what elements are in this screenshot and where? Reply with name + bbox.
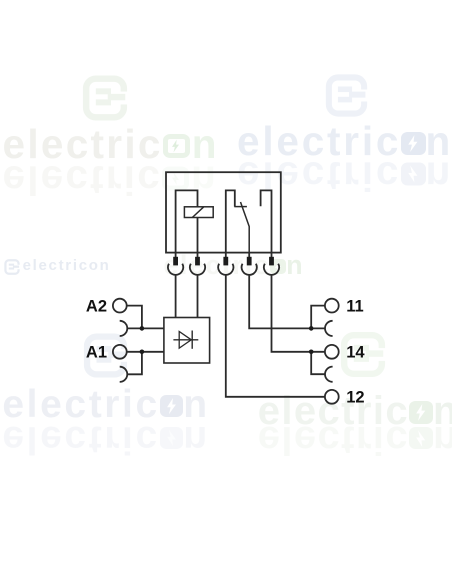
watermark logo top-right (pale blue) (321, 74, 372, 117)
terminal circle 12 (325, 390, 339, 404)
svg-text:A1: A1 (86, 344, 107, 362)
svg-text:12: 12 (346, 389, 364, 407)
suppressor block U1 (164, 318, 210, 364)
wire A1 into block (127, 351, 164, 353)
socket arc under A1 (120, 367, 128, 382)
node 11 junction dot (309, 326, 314, 331)
wire coil return (coil to pin 2) (197, 218, 199, 253)
watermark text bottom-left reflection (2, 420, 209, 459)
wire pin2 to suppressor block (197, 275, 199, 318)
svg-text:11: 11 (346, 298, 363, 316)
wire node to terminal 11 circle (311, 306, 325, 329)
terminal circle A2 (113, 299, 127, 313)
wire coil feed (pin 1 up and over) (176, 190, 198, 252)
wire A2 to node (127, 306, 142, 329)
wire NC fixed contact (pin 3 up, hook) (226, 190, 235, 252)
watermark logo top-left (pale green) (81, 75, 129, 121)
wire pin5 to node 14 (272, 275, 325, 352)
node 14 junction dot (309, 350, 314, 355)
watermark text top-right reflection (237, 156, 452, 197)
socket arc under 11 (325, 321, 333, 336)
pin 5 (271, 253, 273, 257)
node A1 junction dot (140, 350, 145, 355)
switch blade (common, pin 4) (241, 202, 250, 253)
node A2 junction dot (140, 326, 145, 331)
terminal circle 14 (325, 345, 339, 359)
socket clamp 3 (218, 264, 233, 275)
pin 1 (175, 253, 177, 257)
wire A1 node down to socket (127, 352, 142, 375)
terminal circle 11 (325, 299, 339, 313)
socket clamp 4 (242, 264, 257, 275)
terminal circle A1 (113, 345, 127, 359)
watermark text bottom-right electricon (258, 391, 452, 431)
relay outline box (166, 172, 281, 252)
NC contact bar (234, 206, 247, 208)
relay coil K1 (184, 207, 213, 218)
svg-text:14: 14 (346, 344, 365, 362)
diode V1 cathode bar (191, 331, 193, 349)
socket clamp 5 (264, 264, 279, 275)
wire pin1 to suppressor block (175, 275, 177, 318)
watermark text bottom-left electricon (2, 385, 209, 424)
watermark badge middle-left text (23, 258, 111, 273)
wire pin3 to terminal 12 (226, 275, 325, 397)
watermark text middle-right electricon (pale green, mostly hidden) (163, 252, 304, 279)
diode V1 axis (173, 339, 198, 341)
watermark text top-right electricon (237, 121, 452, 162)
watermark text top-left electricon (3, 124, 219, 165)
wire NO contact hook (pin 5) (261, 190, 272, 252)
socket arc under A2 (120, 321, 128, 336)
watermark faint logo mid-right (pale green) (340, 331, 386, 378)
socket arc under 14 (325, 367, 333, 382)
watermark text top-left reflection (3, 160, 218, 201)
socket clamp 2 (190, 264, 205, 275)
pin 3 (225, 253, 227, 257)
wire node 14 to lower socket (311, 352, 325, 374)
coil slash (192, 207, 204, 218)
wire A2 node horizontal into block (127, 327, 164, 329)
watermark text bottom-right reflection (258, 420, 452, 460)
pin 4 (248, 253, 250, 257)
socket clamp 1 (168, 264, 183, 275)
watermark badge middle-left logo (4, 259, 20, 275)
svg-text:A2: A2 (86, 298, 107, 316)
watermark faint logo mid-left (pale blue) (83, 331, 128, 380)
pin 2 (197, 253, 199, 257)
wire pin4 to node 11 (249, 275, 325, 329)
diode V1 triangle (179, 332, 191, 349)
